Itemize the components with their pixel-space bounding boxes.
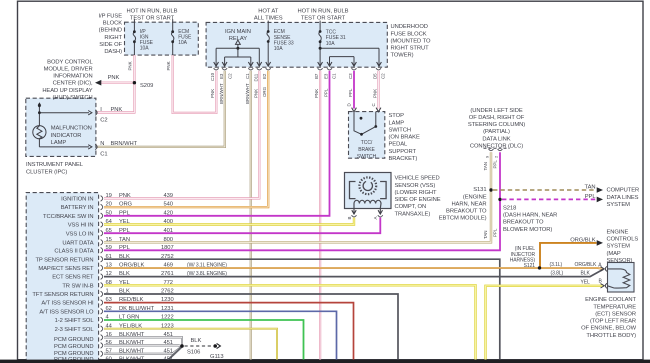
svg-text:PNK: PNK [128, 61, 133, 70]
svg-text:TAN: TAN [483, 231, 488, 239]
svg-text:TEST OR START: TEST OR START [301, 16, 346, 22]
svg-text:TEST OR START: TEST OR START [130, 16, 175, 22]
svg-text:BLOCK: BLOCK [103, 21, 123, 27]
svg-text:469: 469 [164, 263, 173, 269]
svg-text:BRN/WHT: BRN/WHT [245, 83, 250, 104]
svg-text:1222: 1222 [161, 315, 174, 321]
IPC pin I socket [95, 110, 97, 115]
svg-text:2762: 2762 [161, 289, 174, 295]
label S218 dash harness [503, 206, 557, 233]
svg-text:BLK/WHT: BLK/WHT [119, 340, 145, 346]
svg-text:16: 16 [106, 332, 112, 338]
svg-text:CONNECTOR (DLC): CONNECTOR (DLC) [470, 143, 523, 149]
wire BLK 2752 PCM TP SENSOR RETURN row 61 down off bottom [104, 259, 500, 359]
svg-text:13: 13 [106, 263, 112, 269]
svg-text:(W/ 3.8L ENGINE): (W/ 3.8L ENGINE) [187, 271, 227, 277]
svg-text:PCM GROUND: PCM GROUND [54, 344, 94, 350]
svg-text:(3.8L): (3.8L) [551, 271, 564, 277]
PCM row 20 ORG 540 text [106, 202, 173, 208]
fuse ECM FUSE 10A [171, 19, 174, 55]
svg-text:TFT SENSOR RETURN: TFT SENSOR RETURN [32, 292, 93, 298]
stop lamp switch pin arrows D and C [352, 108, 381, 112]
svg-text:C1: C1 [245, 73, 250, 79]
svg-text:PPL: PPL [119, 228, 131, 234]
svg-text:C2: C2 [100, 117, 107, 123]
svg-text:64: 64 [106, 219, 113, 225]
svg-text:D5: D5 [372, 73, 377, 79]
node S106 junction [180, 344, 184, 348]
svg-text:BLK: BLK [119, 254, 130, 260]
svg-text:B: B [347, 217, 352, 220]
PCM left side pin function labels [32, 197, 94, 363]
pin sockets below underhood fuse block [214, 68, 381, 70]
svg-text:PEDAL: PEDAL [389, 142, 409, 148]
label TCC FUSE 31 10A [326, 30, 346, 47]
svg-text:2752: 2752 [161, 254, 174, 260]
VSS pickup brackets [350, 182, 387, 199]
svg-text:CLASS II DATA: CLASS II DATA [54, 248, 93, 254]
svg-text:I/P FUSE: I/P FUSE [99, 13, 123, 19]
wire PNK pin D5 to stop lamp switch pin C [377, 71, 379, 109]
svg-text:(DASH HARN, NEAR: (DASH HARN, NEAR [503, 213, 557, 219]
label malfunction indicator lamp [51, 126, 92, 146]
svg-text:BRN/WHT: BRN/WHT [219, 83, 224, 104]
svg-text:C1: C1 [331, 73, 336, 79]
svg-text:VSS LO IN: VSS LO IN [66, 231, 94, 237]
wire PPL 401 VSS pin A to PCM VSS LO IN row 65 [104, 218, 380, 234]
svg-text:IGNITION IN: IGNITION IN [61, 197, 93, 203]
wire TAN 800 DLC to PCM UART DATA row 15 [104, 152, 491, 242]
svg-text:C2: C2 [227, 73, 232, 79]
svg-text:DATA LINES: DATA LINES [607, 195, 639, 201]
PCM row 19 PNK 439 text [106, 193, 173, 199]
wire BLK/WHT 451 PCM GROUND row 60 to S106 [104, 347, 182, 362]
PCM row 62 DK BLU/WHT 1231 text [106, 306, 174, 312]
svg-text:TP SENSOR RETURN: TP SENSOR RETURN [35, 257, 93, 263]
label engine controls system [607, 229, 639, 264]
svg-text:(UNDER LEFT SIDE: (UNDER LEFT SIDE [470, 108, 522, 114]
node S209 junction [133, 81, 136, 84]
DLC pin sockets [489, 149, 503, 151]
wire PPL dashed S218 to computer data lines arrow [502, 198, 597, 200]
svg-text:ORG: ORG [262, 86, 267, 97]
svg-text:10A: 10A [140, 46, 149, 52]
wire BLK/WHT 451 PCM GROUND row 57 to S106 [104, 346, 182, 353]
PCM row 59 PPL 1807 text [106, 245, 174, 251]
arrow engine controls system (ORG/BLK) [597, 240, 603, 246]
wire PPL pin C3 to stop lamp switch pin D [353, 71, 355, 109]
svg-text:10A: 10A [178, 40, 187, 46]
svg-text:PNK: PNK [210, 89, 215, 98]
underhood fuse block box [206, 22, 387, 67]
instrument panel cluster (IPC) box [26, 98, 96, 156]
malfunction indicator lamp symbol [33, 102, 92, 149]
svg-text:CENTER (DIC),: CENTER (DIC), [53, 81, 93, 87]
svg-text:SIDE OF ENGINE: SIDE OF ENGINE [395, 197, 441, 203]
svg-text:LT GRN: LT GRN [119, 315, 139, 321]
svg-text:G113: G113 [210, 354, 223, 360]
label S131 engine harness [439, 187, 487, 222]
PCM row 60 BLK/WHT 451 text [106, 356, 173, 362]
svg-text:19: 19 [106, 193, 112, 199]
svg-text:TCC/: TCC/ [361, 140, 373, 146]
ECT pin A arrow and socket [601, 266, 607, 271]
svg-text:PPL: PPL [493, 160, 498, 169]
svg-text:BRAKE: BRAKE [358, 147, 375, 153]
svg-text:63: 63 [106, 297, 112, 303]
svg-text:SWITCH: SWITCH [357, 154, 377, 160]
svg-text:TEMPERATURE: TEMPERATURE [593, 304, 636, 310]
label underhood fuse block location [391, 24, 431, 59]
ground G113 symbol [213, 343, 220, 348]
svg-text:(ENGINE: (ENGINE [463, 194, 487, 200]
svg-text:PNK: PNK [253, 89, 258, 98]
wire PNK 439 pin D11 to PCM IGNITION IN row 19 [104, 71, 259, 199]
svg-text:20: 20 [106, 202, 112, 208]
svg-text:SWITCH: SWITCH [389, 127, 411, 133]
svg-text:C3: C3 [348, 73, 353, 79]
pin arrows at underhood fuse block bottom [214, 62, 382, 66]
svg-text:INFORMATION: INFORMATION [53, 74, 92, 80]
svg-text:PPL: PPL [119, 210, 131, 216]
svg-text:A/T ISS SENSOR HI: A/T ISS SENSOR HI [41, 301, 94, 307]
svg-text:(ECT) SENSOR: (ECT) SENSOR [595, 311, 636, 317]
arrow computer data lines (PPL) [597, 197, 603, 203]
PCM row 57 BLK/WHT 451 text [106, 348, 173, 354]
svg-text:1231: 1231 [161, 306, 174, 312]
svg-text:PPL: PPL [493, 228, 498, 237]
svg-text:VEHICLE SPEED: VEHICLE SPEED [395, 176, 440, 182]
svg-text:BREAKOUT TO: BREAKOUT TO [446, 209, 487, 215]
svg-text:DATA LINK: DATA LINK [482, 136, 510, 142]
svg-text:62: 62 [106, 306, 112, 312]
svg-text:2761: 2761 [161, 271, 174, 277]
svg-text:OF ENGINE, BELOW: OF ENGINE, BELOW [581, 326, 637, 332]
svg-text:PNK: PNK [119, 193, 131, 199]
wire PPL 1807 DLC to PCM CLASS II DATA row 59 [104, 152, 500, 250]
svg-text:BLK: BLK [119, 289, 130, 295]
svg-text:(HUD) SWITCH: (HUD) SWITCH [53, 95, 93, 101]
svg-text:451: 451 [164, 340, 173, 346]
svg-text:420: 420 [164, 210, 173, 216]
svg-text:E3: E3 [219, 73, 224, 79]
wire ORG 540 pin E2 to PCM BATTERY IN row 20 [104, 71, 268, 207]
svg-text:EBTCM MODULE): EBTCM MODULE) [439, 216, 487, 222]
svg-text:TR SW IN-B: TR SW IN-B [62, 283, 93, 289]
svg-text:YEL/BLK: YEL/BLK [119, 323, 142, 329]
IPC pin N socket [95, 144, 97, 149]
svg-text:540: 540 [164, 202, 173, 208]
svg-text:SUPPORT: SUPPORT [389, 149, 417, 155]
svg-text:57: 57 [106, 348, 112, 354]
svg-text:S106: S106 [187, 350, 200, 356]
svg-text:S218: S218 [503, 206, 516, 212]
svg-text:ORG/BLK: ORG/BLK [575, 262, 597, 268]
svg-text:61: 61 [106, 254, 112, 260]
PCM row 4 LT GRN 1222 text [106, 315, 174, 321]
svg-text:HEAD UP DISPLAY: HEAD UP DISPLAY [42, 88, 92, 94]
svg-text:44: 44 [106, 323, 113, 329]
wire BLK 2762 PCM TFT SENSOR RETURN row 1 down off bottom [104, 294, 398, 360]
svg-text:1-2 SHIFT SOL: 1-2 SHIFT SOL [55, 318, 95, 324]
svg-text:LAMP: LAMP [51, 140, 67, 146]
svg-text:TAN: TAN [119, 237, 130, 243]
svg-text:B7: B7 [314, 73, 319, 79]
svg-text:10A: 10A [274, 46, 283, 52]
svg-text:THROTTLE BODY): THROTTLE BODY) [586, 333, 636, 339]
svg-text:C10: C10 [210, 72, 215, 81]
label I/P fuse block location [99, 13, 123, 55]
svg-text:CONTROLS: CONTROLS [607, 237, 639, 243]
PCM row 50 PPL 420 text [106, 210, 173, 216]
svg-text:BLK: BLK [581, 271, 591, 277]
svg-text:BATTERY IN: BATTERY IN [61, 205, 94, 211]
svg-text:451: 451 [164, 348, 173, 354]
svg-text:FUSE BLOCK: FUSE BLOCK [391, 31, 427, 37]
svg-text:BLK: BLK [119, 271, 130, 277]
PCM row 15 TAN 800 text [106, 237, 173, 243]
svg-text:65: 65 [106, 228, 112, 234]
svg-text:CLUSTER (IPC): CLUSTER (IPC) [26, 169, 67, 175]
wire YEL/BLK 1223 PCM 2-3 SHIFT SOL row 44 down off bottom [104, 329, 277, 360]
svg-text:SYSTEM: SYSTEM [607, 244, 631, 250]
label computer data lines system [607, 188, 640, 208]
engine coolant temperature (ECT) sensor box [608, 263, 635, 293]
stop lamp switch contacts [354, 112, 377, 136]
svg-text:HOT IN RUN, BULB: HOT IN RUN, BULB [298, 8, 349, 14]
svg-text:(PARTIAL): (PARTIAL) [483, 129, 510, 135]
svg-text:50: 50 [106, 210, 112, 216]
wire PNK from I/P IGN fuse through S209 to IPC pin I [97, 55, 135, 112]
svg-text:S131: S131 [473, 187, 486, 193]
wire BLK dashed S106 to G113 ground [185, 345, 213, 347]
wire PNK from pin B7 down off bottom [319, 71, 321, 360]
node S121 junction [538, 266, 541, 269]
VSS gear symbol [359, 177, 376, 194]
svg-text:800: 800 [164, 237, 173, 243]
svg-text:PPL: PPL [323, 88, 328, 97]
svg-text:MAP/ECT SENS RET: MAP/ECT SENS RET [38, 266, 94, 272]
svg-text:10A: 10A [326, 41, 335, 47]
svg-text:HOT AT: HOT AT [258, 8, 279, 14]
label vehicle speed sensor location [395, 176, 441, 218]
svg-text:(ON BRAKE: (ON BRAKE [389, 135, 420, 141]
svg-text:A/T ISS SENSOR LO: A/T ISS SENSOR LO [39, 309, 94, 315]
svg-text:ECT SENS RET: ECT SENS RET [52, 275, 94, 281]
svg-text:YEL: YEL [581, 280, 591, 286]
wire RED/BLK 1230 PCM A/T ISS SENSOR HI row 63 down off bottom [104, 303, 354, 360]
svg-text:PPL: PPL [119, 245, 131, 251]
svg-text:E2: E2 [262, 73, 267, 79]
label I/P IGN FUSE 10A [140, 29, 154, 52]
svg-text:MALFUNCTION: MALFUNCTION [51, 126, 92, 132]
svg-text:BODY CONTROL: BODY CONTROL [47, 59, 93, 65]
svg-text:HOT IN RUN, BULB: HOT IN RUN, BULB [127, 8, 178, 14]
I/P fuse block box [125, 22, 199, 55]
svg-text:YEL: YEL [119, 280, 131, 286]
svg-text:DASH): DASH) [104, 49, 122, 55]
svg-text:LAMP: LAMP [389, 120, 405, 126]
svg-text:12: 12 [106, 271, 112, 277]
svg-text:15: 15 [106, 237, 112, 243]
svg-text:UART DATA: UART DATA [62, 240, 93, 246]
svg-text:N: N [100, 141, 104, 147]
svg-text:ALL TIMES: ALL TIMES [254, 16, 283, 22]
wire PPL 420 pin E3 to PCM TCC/BRAKE SW IN row 50 [104, 71, 330, 216]
svg-text:(MAP: (MAP [607, 251, 621, 257]
svg-text:COMPT, ON: COMPT, ON [395, 204, 427, 210]
ECT resistor zigzag [608, 269, 630, 288]
svg-text:INSTRUMENT PANEL: INSTRUMENT PANEL [26, 162, 84, 168]
svg-text:ENGINE: ENGINE [607, 229, 629, 235]
svg-text:SENSOR (VSS): SENSOR (VSS) [395, 183, 436, 189]
wire YEL 400 VSS pin B to PCM VSS HI IN row 64 [104, 218, 354, 225]
fuse ECM SENSE FUSE 33 10A [267, 21, 270, 66]
svg-text:ORG: ORG [119, 202, 133, 208]
svg-text:SYSTEM: SYSTEM [607, 202, 631, 208]
label data link connector location [468, 108, 525, 150]
PCM row 64 YEL 400 text [106, 219, 173, 225]
data link connector (DLC) partial connector line [484, 147, 510, 149]
wire LT GRN 1222 PCM 1-2 SHIFT SOL row 4 down off bottom [104, 320, 304, 360]
wire PNK S209 branch to BCM arrow [101, 82, 135, 84]
svg-text:(TOP LEFT REAR: (TOP LEFT REAR [590, 319, 636, 325]
svg-text:1230: 1230 [161, 297, 174, 303]
vehicle speed sensor (VSS) box [345, 173, 392, 209]
svg-text:VSS HI IN: VSS HI IN [68, 223, 94, 229]
svg-text:YEL: YEL [119, 219, 131, 225]
svg-text:RIGHT: RIGHT [104, 35, 122, 41]
svg-text:56: 56 [106, 340, 112, 346]
wire BLK 2761 PCM ECT SENS RET row 12 to ECT pin A [104, 269, 603, 276]
svg-text:1807: 1807 [161, 245, 174, 251]
PCM row 12 BLK 2761 text [106, 271, 174, 277]
svg-text:HARN, NEAR: HARN, NEAR [451, 201, 486, 207]
svg-text:PPL: PPL [348, 88, 353, 97]
svg-text:STEERING COLUMN): STEERING COLUMN) [468, 122, 525, 128]
svg-text:2-3 SHIFT SOL: 2-3 SHIFT SOL [55, 327, 95, 333]
label ECM SENSE FUSE 33 10A [274, 29, 294, 52]
wire BRN/WHT from pin C1 down off bottom [250, 71, 252, 360]
arrow to body control module [95, 80, 101, 86]
PCM row 56 BLK/WHT 451 text [106, 340, 173, 346]
wire TAN dashed S131 to computer data lines arrow [493, 189, 597, 191]
svg-text:BLOWER MOTOR): BLOWER MOTOR) [503, 227, 552, 233]
svg-text:1: 1 [106, 289, 109, 295]
svg-text:UNDERHOOD: UNDERHOOD [391, 24, 428, 30]
VSS pin arrows B and A [352, 209, 383, 215]
wire YEL 772 PCM TR SW IN-B row 68 down off bottom [104, 285, 476, 359]
wire YEL from ECT pin B down off bottom [486, 286, 604, 360]
svg-text:BLK/WHT: BLK/WHT [119, 348, 145, 354]
svg-text:MODULE, DRIVER: MODULE, DRIVER [44, 66, 93, 72]
svg-text:DK BLU/WHT: DK BLU/WHT [119, 306, 155, 312]
wire ORG/BLK S121 branch to engine controls arrow [540, 243, 597, 268]
svg-text:BREAKOUT TO: BREAKOUT TO [503, 220, 544, 226]
svg-text:BLK: BLK [191, 338, 202, 344]
label ECM FUSE 10A [178, 29, 192, 46]
svg-text:BLK/WHT: BLK/WHT [119, 332, 145, 338]
label stop lamp switch location [389, 113, 420, 162]
svg-text:S121: S121 [524, 263, 536, 269]
svg-text:(W/ 3.1L ENGINE): (W/ 3.1L ENGINE) [187, 262, 227, 268]
relay IGN MAIN RELAY symbol and feed bars [216, 40, 259, 65]
wire ORG/BLK 469 PCM MAP/ECT SENS RET row 13 to S121 and ECT pin A [104, 268, 603, 269]
svg-text:COMPUTER: COMPUTER [607, 188, 640, 194]
wire BRN/WHT from pin E3 to IPC pin N [97, 71, 225, 147]
fuse I/P IGN FUSE 10A [133, 19, 136, 55]
PCM row pin sockets [101, 196, 103, 363]
svg-text:TAN: TAN [483, 162, 488, 170]
node S218 junction [498, 198, 501, 201]
svg-text:400: 400 [164, 219, 173, 225]
svg-text:401: 401 [164, 228, 173, 234]
svg-text:(3.1L): (3.1L) [550, 262, 563, 268]
PCM row 16 BLK/WHT 451 text [106, 332, 173, 338]
svg-text:D11: D11 [253, 73, 258, 81]
svg-text:ORG/BLK: ORG/BLK [119, 263, 144, 269]
svg-text:SIDE OF: SIDE OF [99, 42, 122, 48]
TCC/brake switch box [349, 112, 385, 159]
VSS coil [354, 200, 381, 208]
PCM row 61 BLK 2752 text [106, 254, 174, 260]
svg-text:(BEHIND: (BEHIND [99, 28, 122, 34]
wire BLK/WHT 451 PCM GROUND row 16 to S106 [104, 337, 182, 346]
svg-text:RIGHT STRUT: RIGHT STRUT [391, 46, 430, 52]
svg-text:TCC/BRAKE SW IN: TCC/BRAKE SW IN [43, 214, 93, 220]
label engine coolant temperature sensor [581, 297, 637, 339]
label TCC/BRAKE SWITCH [357, 140, 377, 160]
wire DK BLU/WHT 1231 PCM A/T ISS SENSOR LO row 62 down off bottom [104, 311, 337, 359]
svg-text:451: 451 [164, 332, 173, 338]
svg-text:S209: S209 [140, 83, 153, 89]
svg-text:SENSOR): SENSOR) [607, 258, 633, 264]
wire PNK from ECM fuse to pin C10 [173, 55, 217, 113]
svg-text:STOP: STOP [389, 113, 405, 119]
svg-text:TOWER): TOWER) [391, 53, 414, 59]
svg-text:1223: 1223 [161, 323, 174, 329]
svg-text:PPL: PPL [585, 194, 597, 200]
svg-text:BRACKET): BRACKET) [389, 156, 418, 162]
svg-text:(LOWER RIGHT: (LOWER RIGHT [395, 190, 438, 196]
svg-text:RED/BLK: RED/BLK [119, 297, 144, 303]
svg-text:PCM GROUND: PCM GROUND [54, 337, 94, 343]
svg-text:BRN/WHT: BRN/WHT [111, 141, 138, 147]
svg-text:INDICATOR: INDICATOR [51, 133, 82, 139]
svg-text:772: 772 [164, 280, 173, 286]
node S131 junction [489, 188, 492, 191]
arrow computer data lines (TAN) [597, 187, 603, 193]
svg-text:IGN MAIN: IGN MAIN [225, 29, 251, 35]
svg-text:ENGINE COOLANT: ENGINE COOLANT [585, 297, 636, 303]
svg-text:C2: C2 [380, 73, 385, 79]
wire BLK/WHT 451 PCM GROUND row 56 to S106 [104, 344, 182, 347]
PCM connector box (cut off at bottom) [26, 193, 98, 363]
label in fuel injector harness S121 [510, 246, 536, 269]
PCM row 13 ORG/BLK 469 text [106, 263, 173, 269]
PCM row 63 RED/BLK 1230 text [106, 297, 174, 303]
svg-text:PNK: PNK [372, 89, 377, 98]
PCM row 65 PPL 401 text [106, 228, 173, 234]
bottom black bar [0, 360, 650, 363]
PCM row 44 YEL/BLK 1223 text [106, 323, 174, 329]
svg-text:PNK: PNK [314, 89, 319, 98]
svg-text:RELAY: RELAY [229, 36, 247, 42]
PCM row 1 BLK 2762 text [106, 289, 174, 295]
svg-text:439: 439 [164, 193, 173, 199]
svg-text:C1: C1 [100, 152, 107, 158]
svg-text:TRANSAXLE): TRANSAXLE) [395, 211, 431, 217]
